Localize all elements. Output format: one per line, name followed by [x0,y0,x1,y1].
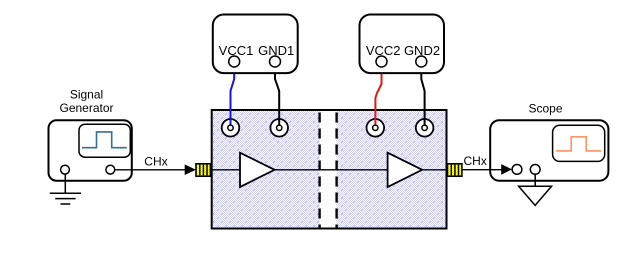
svg-text:Generator: Generator [59,101,113,115]
banana jack J3 [367,119,385,137]
PS2 GND2 terminal [416,56,427,67]
svg-text:CHx: CHx [464,154,487,168]
jack J1 pin [228,125,233,130]
jack J4 pin [422,125,427,130]
PS2 VCC2 terminal [376,56,387,67]
earth ground symbol [50,193,81,204]
BNC connector output [448,164,462,176]
sig gen terminal T2 [106,165,115,174]
isolation channel (white gap) [320,111,337,227]
amplifier A1 [240,153,275,187]
ground wire from T1 [64,174,66,193]
GND1 supply wire [275,67,279,125]
signal wire through block [212,169,447,171]
wire DUT to scope [462,169,502,171]
amplifier A2 [388,153,423,187]
VCC2 supply wire [375,67,381,125]
signal generator screen [79,124,130,157]
arrowhead into DUT [185,164,196,175]
scope screen [553,125,605,161]
BNC connector input [196,164,210,176]
chassis ground wire [534,174,536,186]
VCC1 supply wire [231,67,235,125]
svg-text:Signal: Signal [70,88,103,102]
dashed barrier line left [318,113,320,228]
PS1 VCC1 terminal [229,56,240,67]
jack J3 pin [373,125,378,130]
chassis ground symbol [519,186,552,205]
svg-text:CHx: CHx [144,155,167,169]
jack J2 pin [277,125,282,130]
svg-text:Scope: Scope [528,102,562,116]
power supply PS2 box [360,15,445,74]
arrowhead into scope [501,164,512,175]
scope terminal CH [512,165,522,175]
banana jack J2 [270,119,288,137]
scope terminal GND [530,165,540,175]
DUT block body [212,110,447,229]
power supply PS1 box [213,15,298,74]
wire sig gen to DUT [115,169,187,171]
GND2 supply wire [421,67,424,125]
blue square wave [82,132,127,148]
scope box [490,120,608,181]
PS1 GND1 terminal [270,56,281,67]
signal generator box [49,120,132,180]
orange square wave [556,137,601,151]
sig gen terminal T1 [61,165,70,174]
banana jack J4 [416,119,434,137]
banana jack J1 [222,119,240,137]
dashed barrier line right [335,113,337,228]
